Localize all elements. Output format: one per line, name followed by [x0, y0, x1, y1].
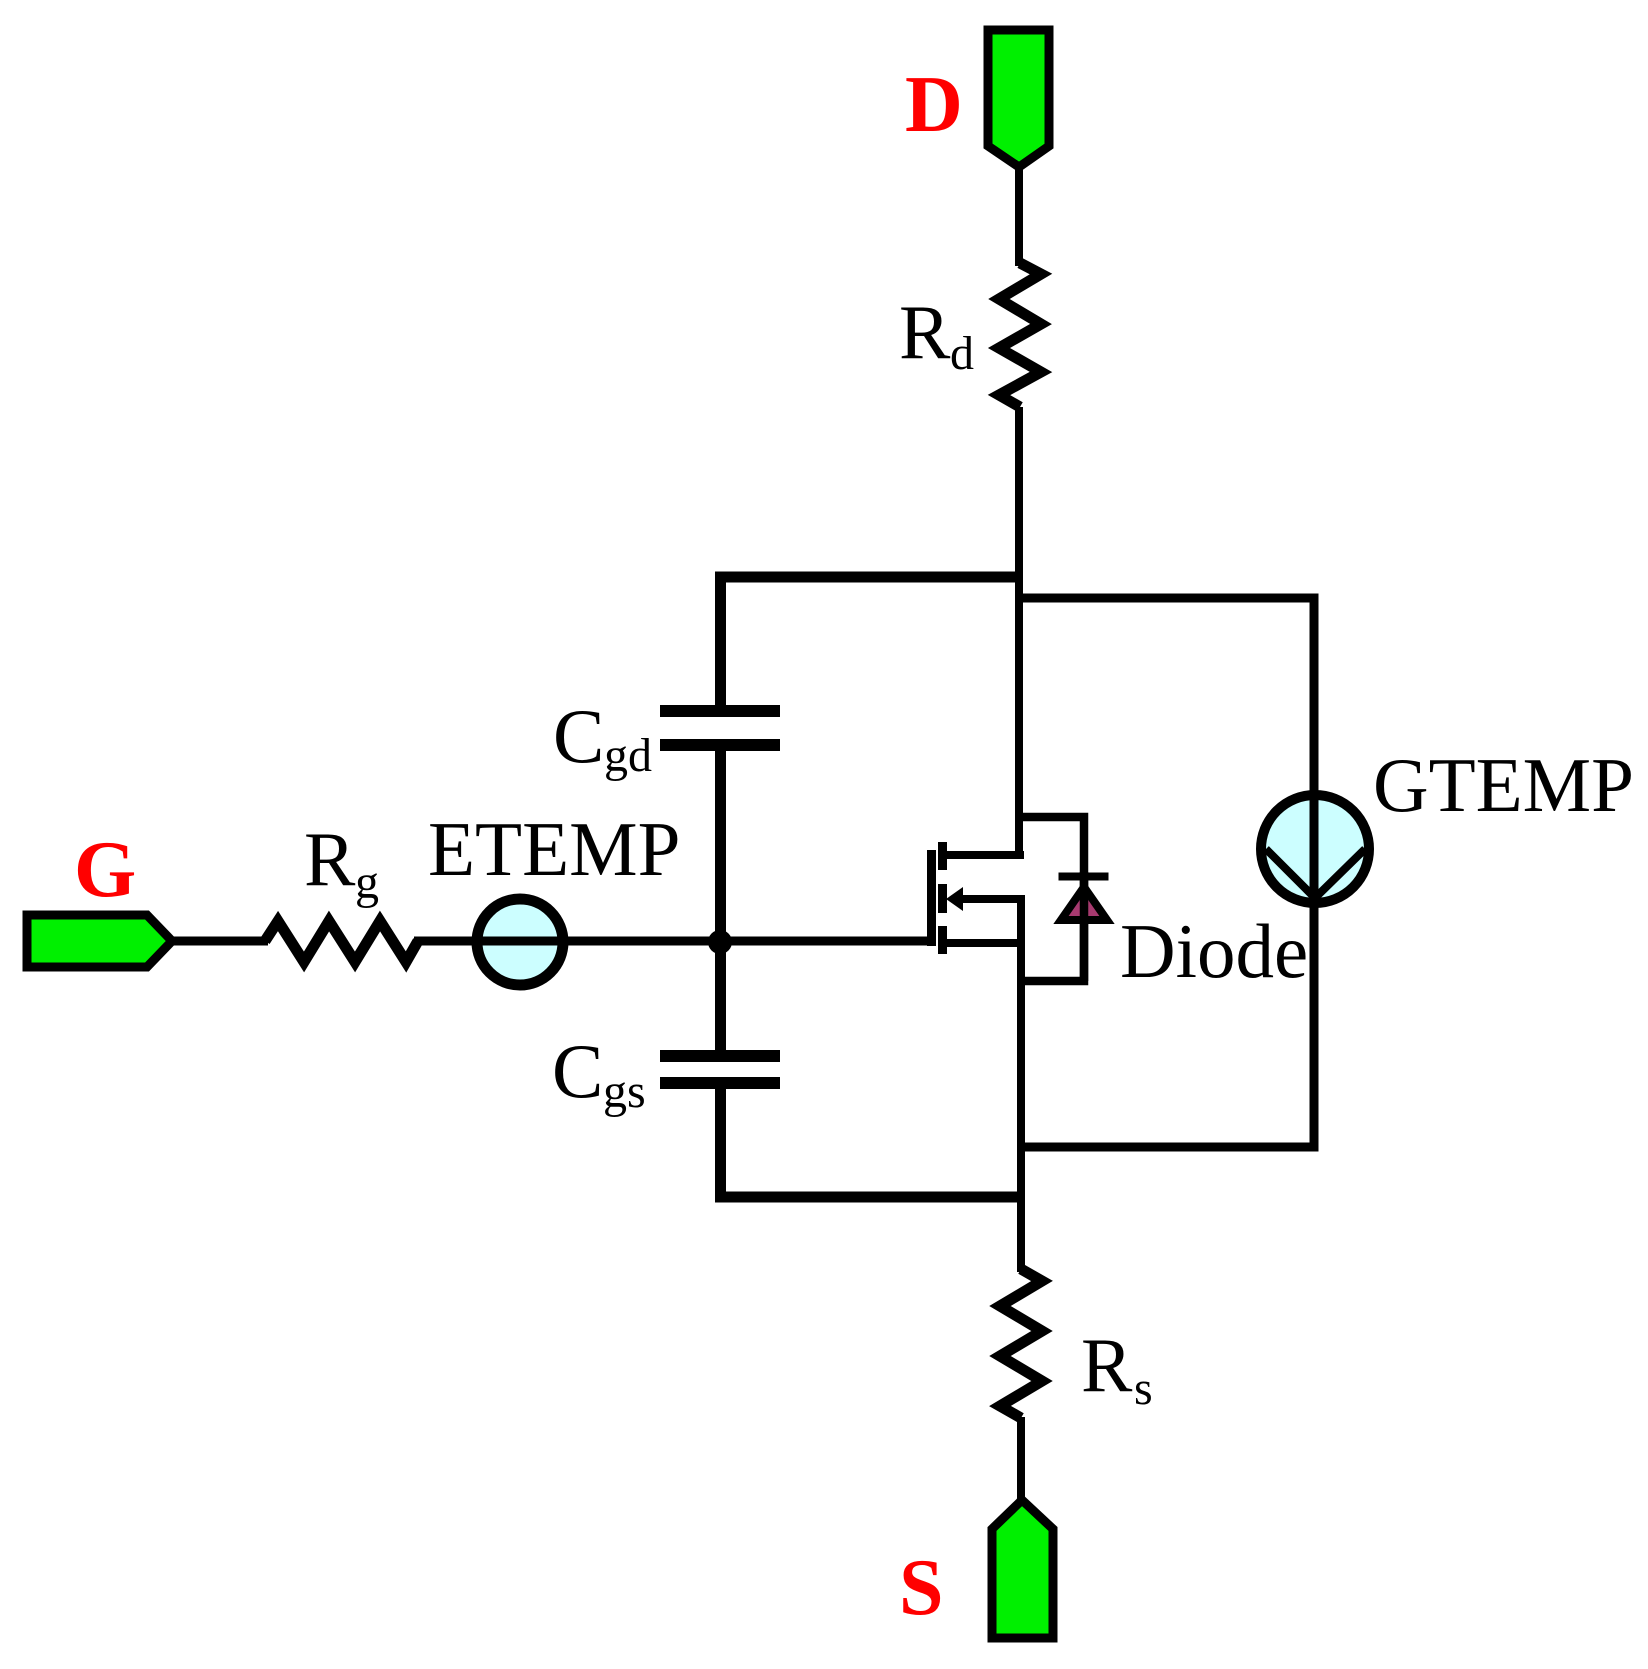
terminal S: [992, 1500, 1053, 1638]
diode cathode bar: [1059, 873, 1109, 881]
svg-text:g: g: [355, 856, 379, 909]
capacitor Cgs: [660, 1050, 780, 1062]
wire right branch rectangle: [1019, 598, 1314, 1147]
transistor M1 source lead: [946, 939, 1025, 947]
wire G terminal to Rg: [172, 937, 268, 946]
transistor M1 body arrowhead: [946, 887, 963, 911]
wire left branch middle vertical: [715, 750, 726, 1051]
svg-text:C: C: [553, 693, 604, 779]
diode body triangle: [1061, 887, 1107, 920]
svg-text:D: D: [905, 61, 963, 149]
svg-text:GTEMP: GTEMP: [1373, 742, 1634, 828]
capacitor Cgd: [660, 705, 780, 717]
svg-text:S: S: [899, 1544, 944, 1632]
svg-text:G: G: [74, 826, 136, 914]
resistor Rs: [1000, 1269, 1042, 1418]
wire Rg to gate: [414, 937, 929, 946]
transistor M1 drain lead: [946, 851, 1024, 859]
resistor Rd: [999, 263, 1041, 407]
GTEMP chord right: [1315, 849, 1365, 898]
wire through diode: [1080, 872, 1089, 981]
svg-text:d: d: [950, 327, 974, 380]
svg-text:R: R: [1081, 1322, 1133, 1408]
terminal D: [988, 30, 1049, 167]
wire Rs to S terminal: [1017, 1417, 1025, 1500]
wire trunk lower: [1017, 895, 1025, 1272]
svg-text:s: s: [1134, 1362, 1153, 1415]
svg-text:gd: gd: [604, 729, 652, 782]
wire through GTEMP: [1310, 788, 1319, 910]
svg-text:R: R: [899, 289, 951, 375]
wire Rd to drain node (trunk upper): [1015, 407, 1023, 859]
wire left branch bottom: [721, 1088, 1026, 1197]
svg-text:C: C: [552, 1028, 603, 1114]
source ETEMP: [477, 899, 563, 985]
wire left branch top horizontal: [721, 577, 1024, 706]
wire diode branch: [1017, 817, 1084, 981]
svg-text:Diode: Diode: [1120, 908, 1308, 994]
svg-text:R: R: [304, 816, 356, 902]
GTEMP chord left: [1266, 849, 1315, 898]
transistor M1 channel segments: [938, 842, 947, 870]
resistor Rg: [265, 921, 418, 962]
transistor M1 body arrow line: [955, 895, 1025, 903]
wire D terminal to Rd: [1015, 168, 1023, 266]
svg-text:ETEMP: ETEMP: [428, 806, 680, 892]
node gate junction: [708, 930, 732, 954]
terminal G: [27, 915, 172, 967]
current source GTEMP: [1261, 795, 1369, 903]
transistor M1 gate bar: [927, 850, 936, 946]
svg-text:gs: gs: [603, 1065, 646, 1118]
